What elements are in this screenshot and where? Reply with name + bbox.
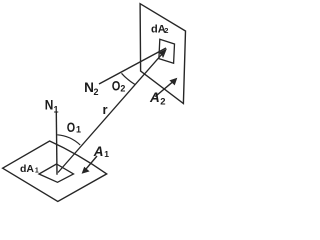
svg-text:N: N	[45, 97, 54, 113]
svg-text:A: A	[93, 144, 104, 159]
svg-text:1: 1	[76, 125, 81, 135]
svg-text:1: 1	[104, 149, 109, 159]
svg-text:1: 1	[35, 167, 39, 174]
svg-text:O: O	[112, 77, 121, 93]
svg-text:A: A	[149, 90, 160, 105]
svg-text:2: 2	[120, 83, 125, 93]
svg-text:2: 2	[160, 96, 165, 107]
svg-text:O: O	[67, 119, 75, 135]
svg-text:N: N	[84, 79, 94, 95]
svg-text:dA: dA	[20, 163, 34, 175]
svg-text:1: 1	[54, 104, 59, 114]
svg-text:2: 2	[94, 87, 99, 97]
svg-text:r: r	[103, 102, 108, 117]
svg-text:2: 2	[164, 26, 168, 35]
